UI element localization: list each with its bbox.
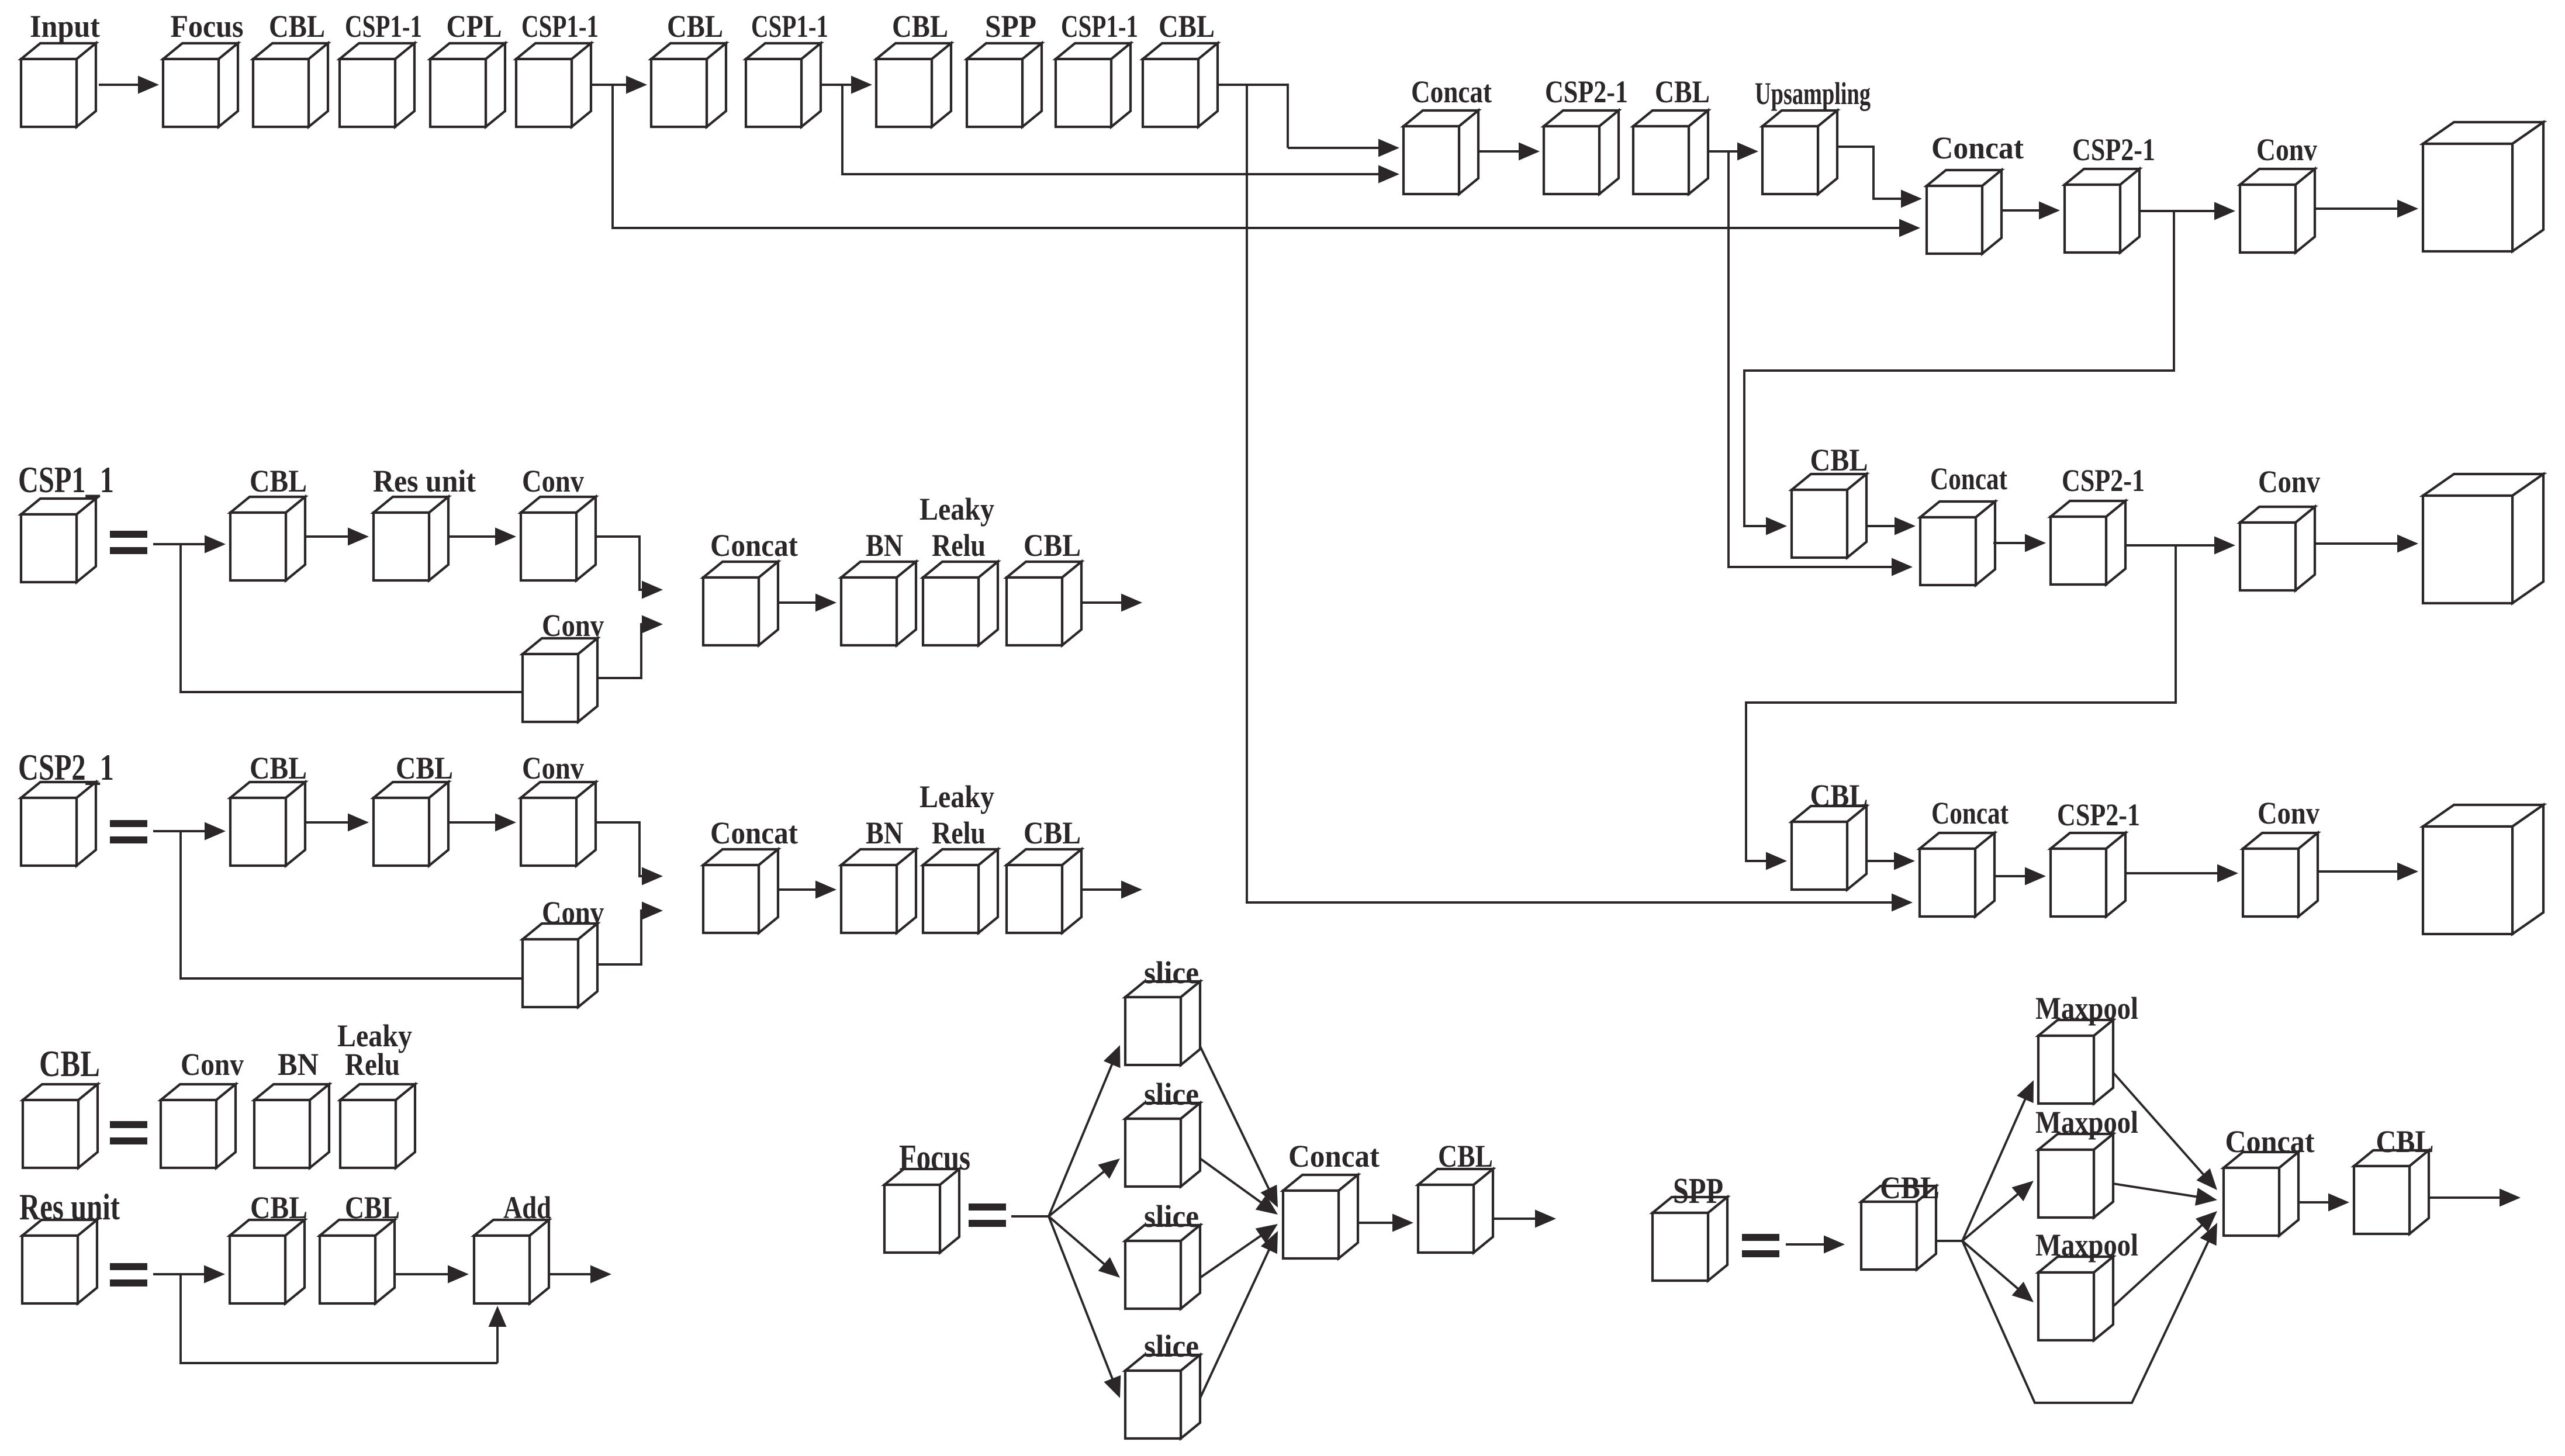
block CSP2-1 head3 xyxy=(2051,833,2125,917)
svg-text:Conv: Conv xyxy=(181,1047,244,1082)
arrow Conv upper to Concat csp1 xyxy=(596,537,663,599)
arrow fanout to Maxpool1 xyxy=(1962,1080,2034,1241)
svg-text:CBL: CBL xyxy=(396,751,453,786)
arrow into CBL def1 xyxy=(181,535,226,554)
equals Focus xyxy=(969,1203,1006,1227)
block Conv head3 xyxy=(2243,833,2318,917)
svg-text:CSP2-1: CSP2-1 xyxy=(2072,132,2155,167)
arrow Upsampling to Concat2 xyxy=(1837,147,1922,208)
svg-text:CSP1-1: CSP1-1 xyxy=(1061,9,1138,44)
svg-text:CBL: CBL xyxy=(1159,9,1215,44)
block CBL out csp1 xyxy=(1007,562,1081,645)
svg-text:Conv: Conv xyxy=(2258,796,2319,831)
block CBL res2 xyxy=(320,1220,395,1303)
arrow slice3 to Concat focus xyxy=(1200,1224,1278,1278)
block Concat spp xyxy=(2224,1152,2298,1236)
block CSP1-1 (backbone) xyxy=(1056,43,1131,127)
arrow fanout to Maxpool2 xyxy=(1962,1181,2034,1241)
block CSP2-1 head1 xyxy=(1544,110,1619,194)
arrow CSP1-1 out to CBL9 xyxy=(821,76,872,94)
svg-text:CSP1-1: CSP1-1 xyxy=(521,9,599,44)
svg-text:slice: slice xyxy=(1144,1199,1199,1234)
svg-text:CBL: CBL xyxy=(892,9,948,44)
block slice3 xyxy=(1125,1225,1200,1309)
wire CBL out to junction V4 xyxy=(1707,150,1729,153)
wire Focus eq out xyxy=(1011,1215,1049,1218)
block Concat focus xyxy=(1283,1175,1358,1258)
block Maxpool3 xyxy=(2038,1257,2113,1340)
svg-text:CBL: CBL xyxy=(250,1190,307,1225)
block CBL out csp2 xyxy=(1007,849,1081,933)
svg-text:SPP: SPP xyxy=(1673,1171,1723,1211)
output feature map 1 xyxy=(2423,122,2543,251)
svg-text:Concat: Concat xyxy=(710,815,798,850)
svg-text:Conv: Conv xyxy=(542,895,604,930)
block Conv head2 xyxy=(2240,507,2315,590)
wire CSP2_1 eq out xyxy=(153,830,181,832)
block CSP1-1 (backbone) xyxy=(746,43,821,127)
svg-text:Conv: Conv xyxy=(522,464,584,499)
svg-text:Maxpool: Maxpool xyxy=(2035,991,2138,1026)
block Concat2 xyxy=(1927,170,2001,254)
arrow into CBL res1 xyxy=(181,1265,225,1284)
arrow fanout to slice2 xyxy=(1049,1158,1120,1216)
block Add xyxy=(474,1220,549,1303)
arrow Concat to BN csp2 xyxy=(778,881,836,899)
block CPL (backbone) xyxy=(430,43,505,127)
svg-text:CSP2-1: CSP2-1 xyxy=(2062,463,2145,498)
arrow fanout to slice3 xyxy=(1049,1216,1120,1278)
arrow slice1 to Concat focus xyxy=(1200,1046,1278,1208)
arrow fanout to slice4 xyxy=(1049,1216,1121,1398)
block CBL (backbone) xyxy=(253,43,328,127)
svg-text:Concat: Concat xyxy=(1931,796,2009,831)
arrow CBL to Concat head2 xyxy=(1866,517,1916,535)
svg-text:Relu: Relu xyxy=(932,815,986,850)
svg-text:Focus: Focus xyxy=(171,9,244,44)
arrow Focus output xyxy=(1493,1210,1556,1228)
block CBL head2 xyxy=(1792,474,1866,558)
block CBL (backbone) xyxy=(651,43,726,127)
svg-text:Leaky: Leaky xyxy=(919,779,994,814)
arrow bypass into Add xyxy=(489,1306,507,1363)
block Concat1 xyxy=(1404,110,1478,194)
arrow CSP2-1 to Conv head3 xyxy=(2125,864,2238,883)
arrow Concat to CBL spp2 xyxy=(2298,1194,2349,1212)
arrow Concat to BN csp1 xyxy=(778,594,836,612)
svg-text:CBL: CBL xyxy=(1810,778,1868,813)
arrow Concat2 to CSP2-1b xyxy=(2001,202,2060,220)
arrow CSP1_1 output xyxy=(1081,594,1142,612)
block CBL def xyxy=(23,1084,98,1168)
wire SPP bypass xyxy=(1962,1223,2217,1403)
svg-text:CBL: CBL xyxy=(39,1043,100,1084)
wire CSP1-1 out to junction xyxy=(591,84,613,86)
arrow Maxpool3 to Concat spp xyxy=(2113,1211,2217,1306)
arrow Conv3 to output3 xyxy=(2318,863,2418,881)
block Concat csp1 xyxy=(703,562,778,645)
arrow slice2 to Concat focus xyxy=(1200,1158,1278,1215)
svg-text:CSP2_1: CSP2_1 xyxy=(18,746,114,788)
output feature map 3 xyxy=(2423,805,2543,934)
arrow into CBL7 xyxy=(613,76,647,94)
arrow Concat to CBL focus xyxy=(1358,1214,1413,1232)
block CSP2_1 xyxy=(21,782,96,866)
arrow CBL to Res unit xyxy=(305,528,369,546)
svg-text:CSP1-1: CSP1-1 xyxy=(345,9,422,44)
svg-text:Leaky: Leaky xyxy=(919,492,994,527)
svg-text:Relu: Relu xyxy=(345,1047,400,1082)
wire CSP1_1 eq out xyxy=(153,543,181,545)
block Leaky Relu csp1 xyxy=(923,562,998,645)
arrow Concat to CSP2-1 head2 xyxy=(1993,534,2046,552)
wire CSP2_1 bypass xyxy=(181,831,523,978)
block BN csp1 xyxy=(841,562,916,645)
svg-text:Upsampling: Upsampling xyxy=(1755,76,1871,111)
svg-text:Conv: Conv xyxy=(2258,464,2320,499)
wire CBL spp out xyxy=(1936,1240,1962,1242)
equals CBL xyxy=(110,1121,147,1144)
arrow Conv1 to output1 xyxy=(2315,200,2418,218)
svg-text:CSP2-1: CSP2-1 xyxy=(1545,74,1628,109)
block Focus (backbone) xyxy=(163,43,238,127)
block SPP (backbone) xyxy=(967,43,1042,127)
svg-text:CBL: CBL xyxy=(667,9,723,44)
block CBL2 csp2 xyxy=(374,782,448,866)
block CBL head3 xyxy=(1792,806,1866,890)
block slice1 xyxy=(1125,981,1200,1065)
svg-text:CBL: CBL xyxy=(1810,442,1868,478)
arrow into CBL spp xyxy=(1786,1236,1845,1254)
svg-text:Res unit: Res unit xyxy=(19,1186,120,1227)
equals CSP1_1 xyxy=(110,531,147,554)
block CBL (backbone) xyxy=(1143,43,1218,127)
arrow Res unit output xyxy=(549,1265,611,1284)
block CBL1 csp2 xyxy=(230,782,305,866)
svg-text:Concat: Concat xyxy=(1931,130,2024,165)
svg-text:Conv: Conv xyxy=(2256,132,2317,167)
svg-text:BN: BN xyxy=(866,815,903,850)
block Conv csp1 upper xyxy=(521,497,596,580)
block Input (backbone) xyxy=(21,43,96,127)
svg-text:CPL: CPL xyxy=(447,9,502,44)
block Res unit csp1 xyxy=(374,497,448,580)
block slice2 xyxy=(1125,1103,1200,1187)
block CSP1_1 xyxy=(21,499,96,582)
svg-text:CBL: CBL xyxy=(250,751,307,786)
svg-text:BN: BN xyxy=(866,528,903,563)
equals Res unit xyxy=(110,1263,147,1286)
svg-text:CBL: CBL xyxy=(2376,1124,2434,1159)
wire branch to head2 Concat lower xyxy=(1729,151,1913,576)
block Conv csp2 upper xyxy=(521,782,596,866)
output feature map 2 xyxy=(2423,474,2543,603)
arrow Input to Focus xyxy=(99,76,159,94)
svg-text:SPP: SPP xyxy=(985,9,1036,44)
block CBL head1 xyxy=(1633,110,1708,194)
svg-text:BN: BN xyxy=(278,1047,319,1082)
wire branch to Concat2 lower xyxy=(613,85,1920,237)
block Focus def xyxy=(884,1169,959,1253)
block CBL spp2 xyxy=(2354,1150,2429,1234)
block Concat head3 xyxy=(1920,833,1994,917)
wire branch to Concat1 lower xyxy=(842,85,1399,184)
arrow into CBL def2 xyxy=(181,822,226,841)
block Concat head2 xyxy=(1920,502,1995,585)
arrow fanout to Maxpool3 xyxy=(1962,1241,2034,1302)
arrow into Conv head2 xyxy=(2176,537,2235,555)
arrow CBL to Concat head3 xyxy=(1866,852,1915,870)
arrow fanout to slice1 xyxy=(1049,1045,1121,1216)
svg-text:CSP2-1: CSP2-1 xyxy=(2057,797,2140,832)
arrow Conv2 to output2 xyxy=(2315,535,2418,553)
wire branch to head2 CBL xyxy=(1744,211,2174,535)
arrow CBL2 to Add xyxy=(395,1265,469,1284)
svg-text:Concat: Concat xyxy=(1288,1139,1380,1174)
arrow Res unit to Conv xyxy=(448,528,516,546)
equals CSP2_1 xyxy=(110,820,147,843)
block SPP def xyxy=(1653,1197,1727,1281)
svg-text:slice: slice xyxy=(1144,955,1199,990)
svg-text:Res unit: Res unit xyxy=(373,464,476,499)
svg-text:Concat: Concat xyxy=(1411,74,1492,109)
block CBL (backbone) xyxy=(876,43,951,127)
block CSP1-1 (backbone) xyxy=(516,43,591,127)
block Concat csp2 xyxy=(703,849,778,933)
wire CSP2-1b out xyxy=(2139,210,2174,212)
block Res unit def xyxy=(22,1220,97,1303)
svg-text:CBL: CBL xyxy=(250,464,307,499)
arrow Conv lower to Concat csp2 xyxy=(597,902,663,965)
block CBL csp1 xyxy=(230,497,305,580)
svg-text:Concat: Concat xyxy=(1930,461,2007,496)
svg-text:CSP1_1: CSP1_1 xyxy=(18,459,114,500)
block CSP1-1 (backbone) xyxy=(340,43,414,127)
equals SPP xyxy=(1742,1234,1779,1257)
block Conv cbl xyxy=(161,1084,236,1168)
wire Res unit eq out xyxy=(153,1273,181,1275)
block CSP2-1 head1b xyxy=(2065,169,2139,253)
arrow Concat to CSP2-1 head3 xyxy=(1994,867,2046,886)
block slice4 xyxy=(1125,1355,1200,1438)
wire CSP1_1 bypass xyxy=(181,544,523,692)
wire branch to head3 Concat lower xyxy=(1247,85,1913,912)
arrow SPP output xyxy=(2429,1189,2521,1207)
svg-text:Conv: Conv xyxy=(522,751,584,786)
svg-text:Input: Input xyxy=(30,9,100,44)
block Conv csp2 lower xyxy=(523,924,597,1007)
svg-text:CBL: CBL xyxy=(345,1190,400,1225)
svg-text:CBL: CBL xyxy=(1655,74,1710,109)
arrow Concat1 to CSP2-1 xyxy=(1477,143,1540,161)
svg-text:Focus: Focus xyxy=(899,1138,970,1178)
svg-text:slice: slice xyxy=(1144,1077,1199,1112)
arrow CSP2_1 output xyxy=(1081,881,1142,899)
svg-text:CBL: CBL xyxy=(1438,1139,1493,1174)
block Leaky Relu cbl xyxy=(340,1084,415,1168)
arrow slice4 to Concat focus xyxy=(1200,1231,1278,1398)
wire CSP2-1 head2 out xyxy=(2125,544,2176,547)
block BN cbl xyxy=(254,1084,329,1168)
arrow into Upsampling xyxy=(1729,143,1758,161)
block Upsampling xyxy=(1762,110,1837,194)
svg-text:Conv: Conv xyxy=(542,608,604,643)
block CBL focus xyxy=(1418,1169,1493,1253)
svg-text:CBL: CBL xyxy=(269,9,325,44)
svg-text:CSP1-1: CSP1-1 xyxy=(751,9,828,44)
svg-text:CBL: CBL xyxy=(1024,528,1081,563)
wire Res unit bypass xyxy=(181,1274,497,1363)
svg-text:Concat: Concat xyxy=(710,528,798,563)
arrow Conv lower to Concat csp1 xyxy=(597,615,663,679)
block Maxpool2 xyxy=(2038,1134,2113,1218)
wire branch to head3 CBL xyxy=(1746,545,2176,870)
arrow Maxpool2 to Concat spp xyxy=(2113,1184,2217,1206)
arrow into Concat1 upper xyxy=(1288,139,1399,157)
arrow into Conv head1 xyxy=(2174,202,2235,220)
arrow Conv upper to Concat csp2 xyxy=(596,822,663,886)
arrow Maxpool1 to Concat spp xyxy=(2113,1073,2217,1190)
wire CBL12 out xyxy=(1218,85,1288,148)
svg-text:CBL: CBL xyxy=(1880,1170,1940,1205)
block Maxpool1 xyxy=(2038,1020,2113,1104)
arrow CBL2 to Conv csp2 xyxy=(448,814,516,832)
svg-text:CBL: CBL xyxy=(1024,815,1081,850)
block CBL spp xyxy=(1861,1186,1936,1270)
svg-text:slice: slice xyxy=(1144,1329,1199,1364)
svg-text:Add: Add xyxy=(503,1190,551,1225)
block BN csp2 xyxy=(841,849,916,933)
block Conv head1 xyxy=(2240,169,2315,253)
block Conv csp1 lower xyxy=(523,638,597,722)
svg-text:Maxpool: Maxpool xyxy=(2035,1105,2138,1140)
svg-text:Concat: Concat xyxy=(2225,1124,2315,1159)
svg-text:Relu: Relu xyxy=(932,528,986,563)
arrow CBL1 to CBL2 csp2 xyxy=(305,814,369,832)
block CBL res1 xyxy=(230,1220,305,1303)
svg-text:Maxpool: Maxpool xyxy=(2035,1227,2138,1263)
block CSP2-1 head2 xyxy=(2051,501,2125,585)
block Leaky Relu csp2 xyxy=(923,849,998,933)
